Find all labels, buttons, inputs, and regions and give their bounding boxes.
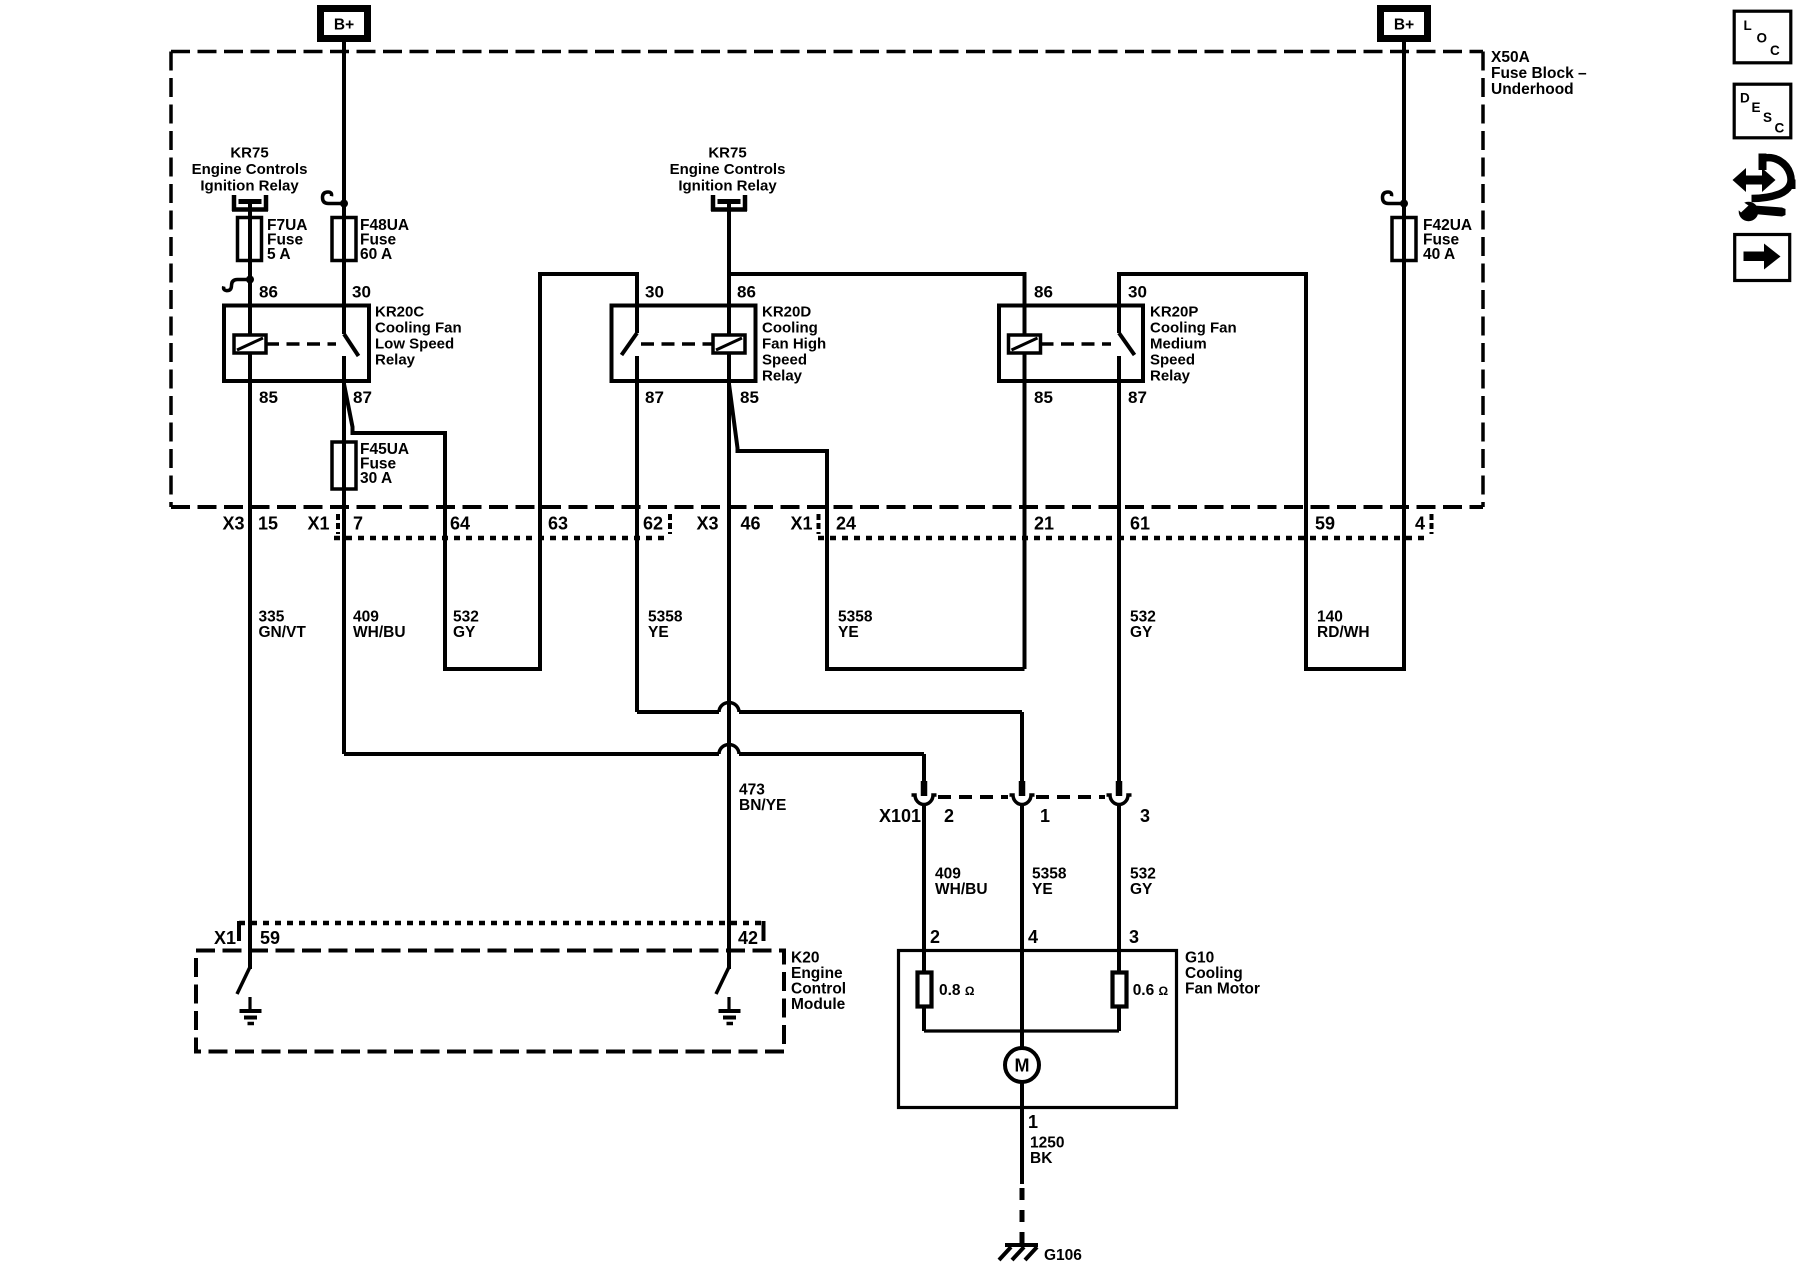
- svg-text:87: 87: [353, 388, 372, 407]
- svg-text:Ignition Relay: Ignition Relay: [200, 178, 299, 195]
- svg-text:X50A: X50A: [1491, 49, 1530, 66]
- svg-text:87: 87: [645, 388, 664, 407]
- svg-text:5358: 5358: [1032, 866, 1067, 883]
- svg-text:BN/YE: BN/YE: [739, 797, 786, 814]
- svg-text:KR20C: KR20C: [375, 304, 424, 321]
- svg-text:KR20D: KR20D: [762, 304, 811, 321]
- svg-text:Speed: Speed: [1150, 352, 1195, 369]
- svg-text:46: 46: [741, 514, 761, 534]
- svg-text:YE: YE: [838, 624, 859, 641]
- svg-text:30: 30: [352, 283, 371, 302]
- svg-text:532: 532: [453, 609, 479, 626]
- svg-text:GY: GY: [1130, 881, 1153, 898]
- svg-text:YE: YE: [1032, 881, 1053, 898]
- svg-text:Cooling: Cooling: [1185, 965, 1243, 982]
- svg-text:3: 3: [1140, 806, 1150, 826]
- svg-text:86: 86: [737, 283, 756, 302]
- svg-text:5358: 5358: [648, 609, 683, 626]
- svg-text:GY: GY: [1130, 624, 1153, 641]
- svg-text:WH/BU: WH/BU: [353, 624, 406, 641]
- svg-text:Ignition Relay: Ignition Relay: [678, 178, 777, 195]
- svg-text:Cooling: Cooling: [762, 320, 818, 337]
- svg-text:63: 63: [548, 514, 568, 534]
- svg-text:21: 21: [1034, 514, 1054, 534]
- svg-text:KR20P: KR20P: [1150, 304, 1198, 321]
- svg-text:1250: 1250: [1030, 1135, 1064, 1152]
- svg-text:S: S: [1763, 110, 1772, 125]
- svg-text:30: 30: [1128, 283, 1147, 302]
- svg-text:B+: B+: [334, 17, 354, 34]
- svg-text:Cooling Fan: Cooling Fan: [375, 320, 462, 337]
- svg-text:532: 532: [1130, 866, 1156, 883]
- svg-text:2: 2: [944, 806, 954, 826]
- svg-text:G10: G10: [1185, 950, 1214, 967]
- svg-text:4: 4: [1028, 927, 1038, 947]
- svg-text:M: M: [1015, 1056, 1030, 1076]
- svg-text:C: C: [1775, 121, 1785, 136]
- svg-text:E: E: [1752, 100, 1761, 115]
- svg-text:4: 4: [1415, 514, 1425, 534]
- svg-text:GY: GY: [453, 624, 476, 641]
- svg-text:K20: K20: [791, 950, 819, 967]
- svg-text:42: 42: [738, 928, 758, 948]
- svg-text:3: 3: [1129, 927, 1139, 947]
- svg-text:RD/WH: RD/WH: [1317, 624, 1370, 641]
- svg-text:140: 140: [1317, 609, 1343, 626]
- svg-text:30: 30: [645, 283, 664, 302]
- svg-text:C: C: [1770, 43, 1780, 58]
- svg-text:85: 85: [740, 388, 759, 407]
- svg-text:X101: X101: [879, 806, 921, 826]
- svg-text:Module: Module: [791, 996, 846, 1013]
- svg-text:Underhood: Underhood: [1491, 81, 1574, 98]
- svg-text:Relay: Relay: [1150, 368, 1191, 385]
- svg-text:7: 7: [353, 514, 363, 534]
- svg-text:YE: YE: [648, 624, 669, 641]
- svg-text:Engine Controls: Engine Controls: [670, 161, 786, 178]
- svg-text:5358: 5358: [838, 609, 873, 626]
- svg-text:L: L: [1744, 18, 1752, 33]
- svg-text:64: 64: [450, 514, 470, 534]
- svg-text:Speed: Speed: [762, 352, 807, 369]
- svg-text:5 A: 5 A: [267, 246, 291, 263]
- svg-text:Medium: Medium: [1150, 336, 1207, 353]
- svg-text:62: 62: [643, 514, 663, 534]
- svg-text:Relay: Relay: [762, 368, 803, 385]
- svg-text:GN/VT: GN/VT: [259, 624, 307, 641]
- svg-text:BK: BK: [1030, 1150, 1053, 1167]
- svg-text:X1: X1: [791, 514, 813, 534]
- svg-text:O: O: [1757, 31, 1768, 46]
- svg-text:Engine: Engine: [791, 965, 843, 982]
- svg-text:59: 59: [1315, 514, 1335, 534]
- svg-text:Cooling Fan: Cooling Fan: [1150, 320, 1237, 337]
- svg-text:D: D: [1740, 91, 1750, 106]
- svg-text:1: 1: [1028, 1112, 1038, 1132]
- svg-text:WH/BU: WH/BU: [935, 881, 988, 898]
- svg-text:409: 409: [353, 609, 379, 626]
- svg-text:60 A: 60 A: [360, 246, 392, 263]
- svg-text:KR75: KR75: [708, 145, 746, 162]
- svg-text:1: 1: [1040, 806, 1050, 826]
- svg-text:Relay: Relay: [375, 352, 416, 369]
- svg-text:X3: X3: [697, 514, 719, 534]
- svg-text:85: 85: [1034, 388, 1053, 407]
- svg-text:61: 61: [1130, 514, 1150, 534]
- svg-text:X1: X1: [214, 928, 236, 948]
- svg-text:40 A: 40 A: [1423, 246, 1455, 263]
- svg-text:G106: G106: [1044, 1247, 1082, 1264]
- svg-text:Fuse Block –: Fuse Block –: [1491, 65, 1587, 82]
- svg-text:Fan Motor: Fan Motor: [1185, 981, 1260, 998]
- svg-text:Low Speed: Low Speed: [375, 336, 454, 353]
- svg-text:KR75: KR75: [230, 145, 268, 162]
- svg-text:Engine Controls: Engine Controls: [192, 161, 308, 178]
- svg-text:87: 87: [1128, 388, 1147, 407]
- svg-text:0.6 Ω: 0.6 Ω: [1133, 982, 1169, 999]
- svg-text:473: 473: [739, 782, 765, 799]
- svg-text:Fan High: Fan High: [762, 336, 826, 353]
- svg-text:335: 335: [259, 609, 285, 626]
- svg-text:24: 24: [836, 514, 856, 534]
- svg-text:X3: X3: [223, 514, 245, 534]
- svg-text:532: 532: [1130, 609, 1156, 626]
- svg-text:0.8 Ω: 0.8 Ω: [939, 982, 975, 999]
- svg-text:85: 85: [259, 388, 278, 407]
- svg-text:59: 59: [260, 928, 280, 948]
- svg-text:409: 409: [935, 866, 961, 883]
- svg-text:86: 86: [259, 283, 278, 302]
- svg-text:X1: X1: [308, 514, 330, 534]
- svg-text:86: 86: [1034, 283, 1053, 302]
- svg-text:Control: Control: [791, 981, 846, 998]
- svg-text:B+: B+: [1394, 17, 1414, 34]
- svg-text:30 A: 30 A: [360, 470, 392, 487]
- svg-text:2: 2: [930, 927, 940, 947]
- svg-text:15: 15: [258, 514, 278, 534]
